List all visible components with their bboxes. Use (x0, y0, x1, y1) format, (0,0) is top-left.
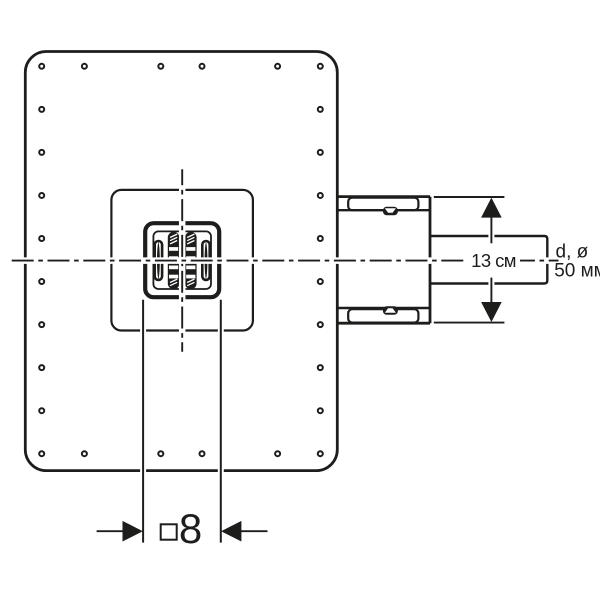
coupling sleeve bottom (348, 309, 418, 322)
outlet pipe (431, 236, 547, 284)
bottom extension lines (casing) (143, 300, 221, 542)
coupling band lines (339, 210, 430, 308)
svg-text:8: 8 (179, 505, 202, 552)
dim square8 label (161, 524, 177, 539)
screw holes (39, 64, 323, 456)
outer slot right (202, 241, 209, 280)
dim square8 line right (241, 530, 268, 532)
clip top (383, 207, 398, 216)
inner slot left (168, 232, 180, 289)
outer slot left (155, 241, 162, 280)
svg-text:13 см: 13 см (471, 250, 516, 271)
dim 13cm arrows (481, 198, 502, 218)
inner slot right (185, 232, 197, 289)
clip bottom (383, 306, 398, 315)
dim 13cm extension lines (434, 197, 505, 323)
outlet coupling body (337, 197, 430, 324)
vertical centerline (179, 169, 186, 351)
grate inner frame (153, 231, 211, 289)
coupling sleeve top (348, 198, 418, 211)
dim 13cm shaft (488, 217, 494, 302)
dim square8 line left (97, 530, 124, 532)
svg-text:d, ø: d, ø (556, 242, 589, 263)
dim 13cm label (467, 248, 520, 272)
collar square (111, 190, 253, 331)
grate outer frame (145, 223, 219, 297)
flange plate outline (25, 52, 337, 471)
svg-text:50 мм: 50 мм (554, 261, 600, 282)
horizontal centerline (12, 257, 559, 264)
